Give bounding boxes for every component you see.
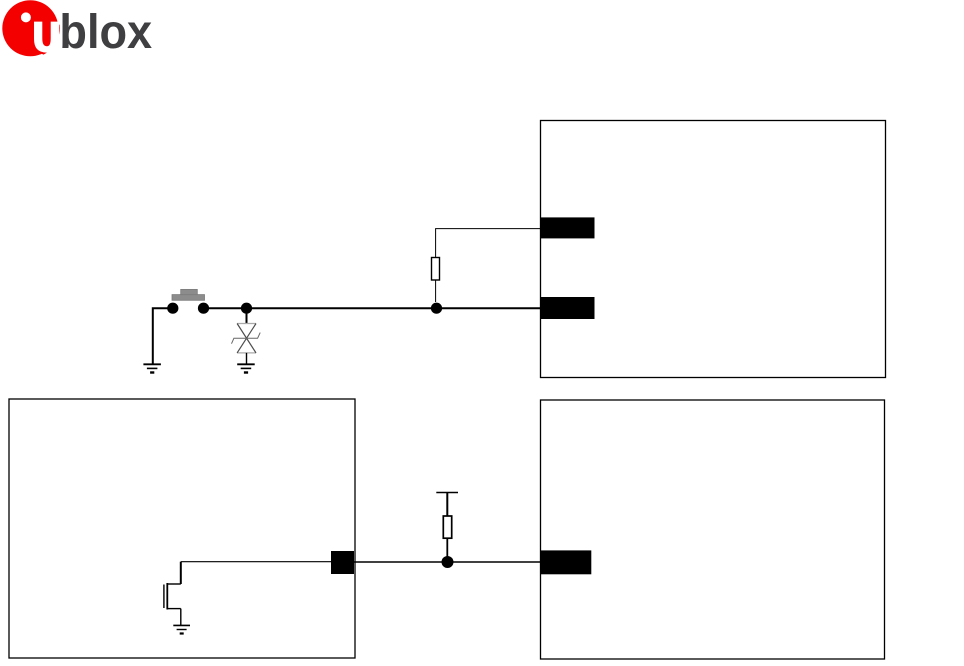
wire: main net from switch to U1 pin 2 xyxy=(204,307,542,309)
wire: TVS to ground xyxy=(246,353,248,364)
node: R1 junction on main net xyxy=(431,303,442,314)
module box U1 (top right) xyxy=(541,121,886,378)
node: pull-up junction xyxy=(442,556,454,568)
wire: TVS stub xyxy=(246,308,248,323)
TVS diode D1 (bidirectional) xyxy=(232,324,261,353)
U1 pin 2 (bottom pad) xyxy=(541,297,595,319)
wire: R1 top lead to U1 pin 1 xyxy=(436,229,541,258)
wire: R2 top lead xyxy=(446,493,448,517)
resistor R2 (pull-up) xyxy=(443,516,451,538)
ground (Q1 source) xyxy=(173,625,190,633)
wire: R2 bottom lead xyxy=(446,538,448,556)
module box U3 (bottom right) xyxy=(541,400,885,659)
module box U2 (bottom left) xyxy=(9,399,355,658)
wire: open-drain net U2 pin to U3 pin xyxy=(354,561,541,563)
U2 pin (output pad) xyxy=(331,551,354,574)
wire: ground drop at switch xyxy=(153,308,168,364)
MOSFET Q1 (open drain, inside U2) xyxy=(164,562,181,626)
S1 contact node left xyxy=(167,303,178,314)
S1 contact node right xyxy=(198,303,209,314)
node: TVS junction xyxy=(241,303,252,314)
ground (switch) xyxy=(143,364,161,372)
svg-text:blox: blox xyxy=(59,5,152,59)
resistor R1 xyxy=(432,258,440,281)
ground (TVS) xyxy=(237,364,255,372)
push button S1 actuator xyxy=(172,289,205,300)
U3 pin (input pad) xyxy=(541,550,591,574)
power rail VCC bar xyxy=(436,492,458,494)
u-blox logo xyxy=(2,0,152,58)
wire: R1 bottom lead xyxy=(435,280,437,302)
U1 pin 1 (top pad) xyxy=(541,217,595,238)
wire: Q1 drain to U2 pin xyxy=(181,561,332,563)
